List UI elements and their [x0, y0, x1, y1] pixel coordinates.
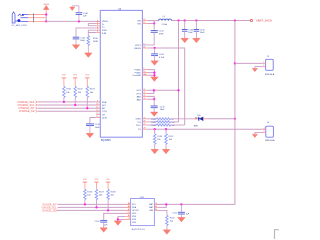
junction J5 tap [234, 62, 236, 64]
svg-text:CHARGE_CE: CHARGE_CE [19, 110, 35, 113]
net terminator VBAT_JACK [250, 19, 252, 21]
capacitor C144 [182, 21, 194, 39]
svg-text:10uF: 10uF [188, 32, 193, 34]
svg-text:10uF: 10uF [160, 109, 165, 111]
svg-text:2: 2 [263, 65, 264, 67]
wire CE [38, 110, 100, 112]
svg-text:SYS: SYS [136, 93, 141, 95]
svg-text:VSS: VSS [132, 216, 137, 218]
ground under R135 [162, 149, 170, 154]
svg-text:R101: R101 [66, 89, 72, 91]
svg-text:VBAT_JACK: VBAT_JACK [256, 19, 272, 23]
wire BIN to thermistor resistor [158, 210, 167, 215]
ground under C150 [100, 228, 108, 233]
op-amp U3 main charger IC box [100, 10, 142, 137]
svg-text:B2B-XH-A: B2B-XH-A [265, 139, 275, 142]
pull-up resistor R101 [62, 75, 72, 103]
ground under C143 [151, 61, 159, 66]
svg-text:4.7uF: 4.7uF [159, 57, 165, 59]
junction rail x184 [184, 19, 186, 21]
wire to J5 pin1 [235, 62, 263, 64]
svg-text:B2B-XH-A: B2B-XH-A [265, 73, 275, 76]
wire SYS pins join [148, 90, 179, 93]
connector J5 [263, 56, 275, 76]
ground at J6 [252, 134, 258, 137]
LED D13 [193, 115, 206, 127]
svg-text:PowerPAD: PowerPAD [133, 74, 142, 77]
U30 left pin names [132, 204, 140, 224]
U30 right pin stubs [154, 204, 158, 210]
connector J1 DC jack symbol [12, 12, 28, 23]
power flag VBUS (up arrow) [45, 10, 47, 15]
capacitor C143 [151, 48, 165, 61]
capacitor C142 [151, 31, 165, 36]
U3 pin numbers left [96, 20, 98, 118]
U3 pin numbers right [143, 19, 147, 130]
svg-text:C140: C140 [83, 13, 89, 15]
junction REGN cap tap [153, 47, 155, 49]
SYS pin stubs [142, 90, 147, 93]
wire BAT pins join [158, 204, 166, 207]
wire BAT pins join [148, 96, 155, 99]
svg-text:ILIM: ILIM [102, 33, 106, 35]
wire QON pin to C146 [90, 118, 96, 124]
wire D- / D+ loop [88, 23, 96, 25]
wire SDA [38, 101, 100, 103]
wire SCL [38, 104, 100, 106]
pull-up resistor R136 [83, 179, 93, 206]
junction at C140 tap [78, 20, 80, 22]
ground under C141 [72, 45, 80, 50]
resistor R130 [87, 36, 99, 53]
svg-text:SDA: SDA [102, 101, 107, 104]
svg-text:C147: C147 [160, 106, 166, 108]
svg-text:10uF: 10uF [80, 40, 85, 42]
ground under C146 [86, 133, 94, 138]
pull-up resistor R102 [73, 75, 83, 106]
wire VSS join to ground [118, 216, 126, 220]
U30 pin numbers right [155, 203, 157, 211]
ground under R134 [151, 149, 159, 154]
pull-up resistor R138 [106, 179, 116, 212]
svg-text:PG: PG [138, 122, 141, 124]
junction rail x178 [177, 19, 179, 21]
jack pin dots [22, 14, 24, 16]
svg-text:12: 12 [96, 110, 98, 112]
svg-text:VSS: VSS [132, 222, 137, 224]
svg-text:13: 13 [96, 113, 98, 115]
svg-text:DC_JACK_PJ202: DC_JACK_PJ202 [12, 24, 27, 27]
svg-text:STAT: STAT [136, 118, 142, 121]
capacitor C145 [194, 21, 206, 39]
svg-text:10: 10 [96, 104, 98, 106]
svg-text:10k: 10k [169, 139, 172, 141]
U30 right pin names [149, 203, 154, 212]
junction rail x235 [234, 19, 236, 21]
ground under R140 [163, 230, 171, 235]
svg-text:R137: R137 [99, 191, 105, 193]
wire SW join [148, 21, 159, 24]
svg-text:C143: C143 [159, 54, 165, 56]
wire PGND join [148, 70, 155, 77]
capacitor C147 [151, 99, 166, 112]
connector J6 [263, 122, 275, 142]
svg-text:1: 1 [263, 62, 264, 64]
svg-text:BQ25895: BQ25895 [101, 140, 111, 142]
svg-text:6: 6 [97, 31, 98, 33]
ground at J5 [252, 68, 258, 71]
wire bootstrap down [153, 24, 155, 31]
capacitor C150 [94, 220, 108, 227]
capacitor C141 [73, 37, 86, 45]
svg-text:C150: C150 [94, 221, 100, 223]
pull-up resistor R137 [94, 179, 104, 209]
wire gauge SDA [58, 206, 131, 208]
U30 pin numbers left [128, 202, 130, 220]
junction at jack pin3 [45, 20, 47, 22]
svg-text:1: 1 [264, 128, 265, 130]
svg-text:C142: C142 [159, 31, 165, 33]
svg-text:VBUS: VBUS [102, 21, 108, 23]
STAT block pin stubs [142, 119, 147, 129]
jack pin edge tick [33, 13, 35, 22]
svg-text:BQ27421-G1: BQ27421-G1 [132, 229, 146, 231]
SW pin stubs [142, 21, 147, 24]
ground flag at C140 (down arrow) [71, 5, 73, 8]
wire PMID pin to C141 [76, 28, 96, 37]
wire VBAT vertical rail [154, 21, 235, 205]
svg-text:10k: 10k [170, 221, 173, 223]
wire TS row to J6 [147, 128, 266, 130]
svg-text:R136: R136 [87, 191, 93, 193]
svg-text:PGND: PGND [134, 70, 141, 72]
wire VBUS main [46, 20, 100, 22]
resistor R134 TS lower [153, 129, 163, 149]
svg-text:BTST: BTST [135, 45, 141, 47]
junction SW bootstrap tap [153, 22, 155, 24]
wire SYS rail [172, 20, 251, 22]
svg-text:C146: C146 [95, 124, 101, 126]
svg-text:REGN: REGN [134, 48, 141, 50]
U3 left pin names [102, 21, 108, 119]
U30 left pin stubs [126, 204, 131, 219]
PGND pin stubs [142, 70, 147, 76]
svg-text:10k: 10k [157, 139, 160, 141]
capacitor C140 [72, 6, 89, 22]
svg-text:SDA: SDA [132, 206, 137, 209]
REGN pin stub [142, 47, 147, 49]
inductor L4 [159, 16, 172, 26]
ground under C147 [150, 112, 158, 116]
wire VDD pin row [104, 213, 131, 220]
wire SYS vertical x178 [178, 21, 180, 122]
ground under C151 [178, 217, 186, 222]
resistor R133 row3 [147, 124, 185, 127]
svg-text:PGND: PGND [134, 73, 141, 75]
svg-text:BAT: BAT [137, 95, 142, 98]
wire J5 pin2 to ground [255, 67, 263, 69]
svg-text:2: 2 [264, 131, 265, 133]
junction C151 tap [180, 203, 182, 205]
svg-text:R130: R130 [93, 38, 99, 40]
svg-text:OTG: OTG [102, 111, 107, 113]
svg-text:9: 9 [97, 100, 98, 102]
svg-text:11: 11 [96, 107, 98, 109]
capacitor C146 [86, 124, 101, 133]
svg-text:2.2uH: 2.2uH [162, 24, 168, 26]
svg-text:PWD: PWD [102, 30, 108, 32]
ground PGND [151, 77, 159, 82]
ground VSS [114, 221, 122, 226]
svg-text:14: 14 [96, 116, 98, 118]
wire INT [38, 107, 100, 109]
svg-text:VBUS: VBUS [43, 4, 49, 6]
wire vertical join at jack output [45, 15, 47, 22]
jack pin stubs [28, 15, 46, 22]
svg-text:R138: R138 [111, 191, 117, 193]
resistor R140 [166, 215, 176, 229]
resistor R132 row2 [147, 121, 179, 124]
U3 pin stubs left top group [96, 21, 100, 32]
svg-text:VDD: VDD [132, 213, 137, 215]
pull-up resistor R103 [85, 75, 95, 110]
svg-text:RED: RED [194, 125, 199, 127]
svg-text:VSS: VSS [132, 219, 137, 221]
svg-text:GPOUT: GPOUT [132, 210, 140, 212]
wire ILIM loop to R130 [88, 30, 96, 36]
capacitor C151 [172, 204, 190, 217]
svg-text:47nF: 47nF [159, 34, 164, 36]
wire gauge GPOUT [58, 209, 131, 211]
svg-text:CE: CE [102, 114, 106, 116]
wire REGN [148, 48, 185, 125]
svg-text:BIN: BIN [150, 210, 154, 212]
svg-text:10uF: 10uF [200, 32, 205, 34]
svg-text:C141: C141 [80, 37, 86, 39]
wire J6 pin2 to ground [255, 132, 263, 134]
wire LED to VBAT vertical [207, 118, 235, 120]
wire gauge SCL [58, 203, 131, 205]
U3 right pin names [133, 21, 142, 132]
junction at jack pin1 [45, 13, 47, 15]
BAT pin stubs [142, 96, 147, 99]
svg-text:R102: R102 [78, 89, 84, 91]
junction rail x196 [195, 19, 197, 21]
resistor R131 row1 [147, 118, 193, 121]
svg-text:QON: QON [102, 117, 107, 119]
wire C142 to BTST pin [142, 32, 154, 45]
IC U30 fuel gauge box [131, 199, 155, 226]
svg-text:GAUGE_SDA: GAUGE_SDA [42, 210, 58, 213]
U3 mid-left pin stubs [96, 102, 100, 118]
svg-text:10nF: 10nF [95, 127, 100, 129]
svg-text:BAT: BAT [137, 99, 142, 102]
svg-text:R103: R103 [90, 89, 96, 91]
ground under C144 [181, 38, 189, 43]
resistor R135 TS lower2 [165, 129, 175, 149]
svg-text:100R: 100R [93, 41, 98, 43]
svg-text:NTC: NTC [136, 125, 141, 127]
ground under C145 [193, 38, 201, 43]
ground under R130 [85, 53, 93, 58]
sheet corner border [275, 230, 280, 239]
svg-text:SYS: SYS [136, 90, 141, 92]
